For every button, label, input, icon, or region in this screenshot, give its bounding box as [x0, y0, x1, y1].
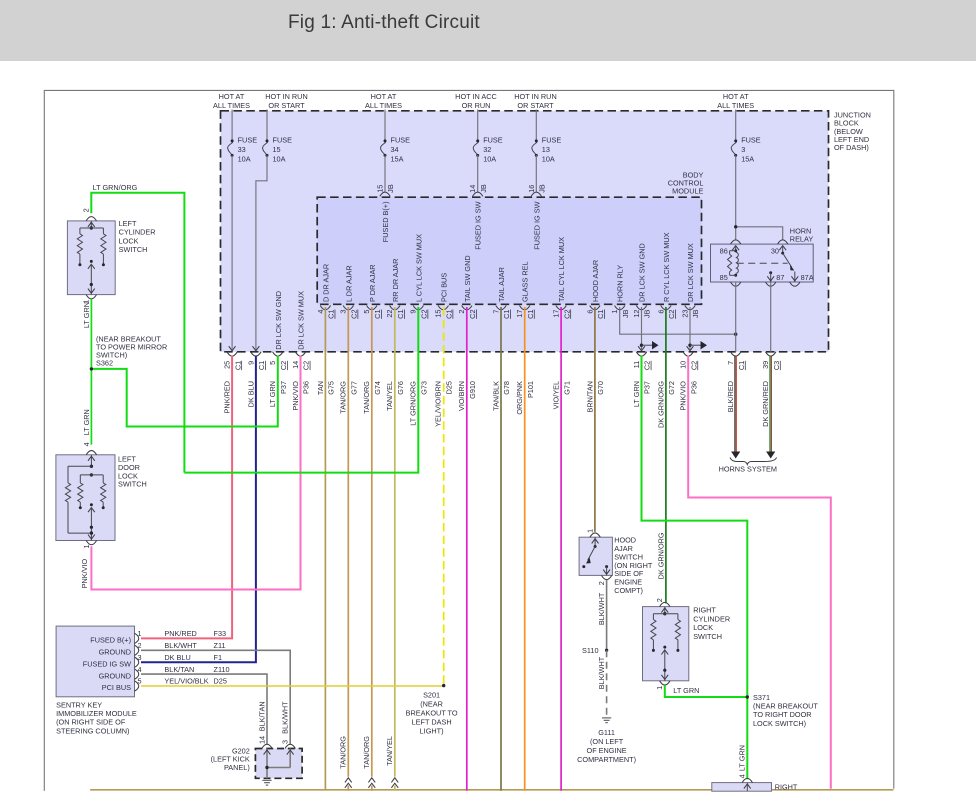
svg-text:2: 2	[597, 581, 606, 585]
left door lock switch pin 1	[86, 541, 96, 545]
svg-text:G111: G111	[598, 728, 615, 737]
off-page connector chevrons for G77 G74 G76	[345, 778, 352, 783]
diagram frame	[44, 90, 894, 791]
svg-text:RIGHT: RIGHT	[693, 606, 716, 615]
header bar	[0, 0, 976, 61]
wire LT GRN cylinder to S362 to door switch	[90, 299, 92, 445]
svg-text:5: 5	[138, 677, 142, 686]
horns system brace	[730, 458, 777, 465]
ground G111	[602, 717, 611, 719]
svg-text:1: 1	[655, 686, 664, 690]
JB bottom pin 7 C1	[731, 352, 741, 356]
svg-text:10A: 10A	[273, 154, 286, 163]
svg-text:DK GRN/ORG: DK GRN/ORG	[656, 532, 665, 579]
svg-text:FUSED IG SW: FUSED IG SW	[474, 201, 483, 249]
svg-text:6: 6	[585, 310, 594, 314]
ground splice block G202 box	[255, 749, 302, 779]
svg-text:C2: C2	[420, 310, 429, 319]
svg-text:3: 3	[741, 145, 745, 154]
wire fuse F32 to BCM pin 14 JB	[477, 155, 479, 193]
svg-text:P37: P37	[279, 381, 288, 394]
wire TAN/YEL G76	[394, 307, 396, 777]
svg-text:1: 1	[138, 629, 142, 638]
svg-text:FUSED B(+): FUSED B(+)	[381, 202, 390, 243]
horn relay box	[711, 244, 814, 282]
svg-text:G76: G76	[396, 381, 405, 395]
svg-text:G71: G71	[562, 381, 571, 395]
svg-text:C1: C1	[373, 310, 382, 319]
svg-text:LIGHT): LIGHT)	[420, 727, 444, 736]
wire fuse F34 to BCM pin 15 JB	[384, 155, 386, 192]
wire BLK/WHT Z11 to G202 pin 3	[141, 650, 290, 744]
svg-text:TAN/ORG: TAN/ORG	[362, 736, 371, 769]
svg-text:SWITCH: SWITCH	[118, 480, 147, 489]
svg-text:LT GRN/ORG: LT GRN/ORG	[93, 183, 138, 192]
JB bottom pin 14 C2	[295, 352, 305, 356]
svg-text:86: 86	[720, 247, 728, 256]
svg-text:6: 6	[656, 310, 665, 314]
node S362	[90, 367, 93, 370]
wire ORG/PNK P101	[524, 307, 526, 791]
svg-text:HOOD AJAR: HOOD AJAR	[591, 260, 600, 302]
G202 pin 14	[262, 744, 272, 748]
svg-text:15: 15	[376, 185, 385, 193]
svg-text:BLK/TAN: BLK/TAN	[164, 665, 194, 674]
svg-text:PNK/VIO: PNK/VIO	[679, 381, 688, 411]
svg-text:10A: 10A	[542, 154, 555, 163]
wire LT GRN/ORG riser to cylinder switch	[91, 193, 184, 473]
svg-text:15A: 15A	[391, 154, 404, 163]
svg-text:P36: P36	[689, 381, 698, 394]
fuse F3	[735, 110, 737, 141]
wire fuse F15 output jog to JB bottom	[256, 155, 267, 349]
svg-text:C1: C1	[737, 361, 746, 370]
svg-text:C2: C2	[643, 361, 652, 370]
svg-text:87A: 87A	[801, 273, 814, 282]
svg-text:DK BLU: DK BLU	[246, 381, 255, 407]
svg-text:C1: C1	[233, 361, 242, 370]
svg-text:PNK/RED: PNK/RED	[164, 629, 196, 638]
svg-text:G72: G72	[667, 381, 676, 395]
svg-text:PNK/RED: PNK/RED	[223, 381, 232, 413]
svg-text:FUSE: FUSE	[238, 136, 258, 145]
svg-text:C2: C2	[689, 361, 698, 370]
svg-text:S110: S110	[582, 646, 599, 655]
svg-text:LEFT DASH: LEFT DASH	[412, 718, 452, 727]
svg-text:5: 5	[362, 310, 371, 314]
svg-text:RR DR AJAR: RR DR AJAR	[391, 259, 400, 302]
wire fuse F33 output to JB bottom	[231, 155, 233, 349]
JB bottom pin 39 C3	[766, 352, 776, 356]
svg-text:L CYL LCK SW MUX: L CYL LCK SW MUX	[414, 234, 423, 302]
svg-text:LT GRN: LT GRN	[268, 381, 277, 407]
svg-text:D25: D25	[445, 381, 454, 394]
svg-text:C2: C2	[468, 310, 477, 319]
svg-text:ALL TIMES: ALL TIMES	[717, 101, 754, 110]
svg-text:JB: JB	[643, 309, 652, 318]
wire TAN G75	[324, 307, 326, 790]
svg-text:2: 2	[457, 310, 466, 314]
fuse F15	[266, 110, 268, 141]
svg-text:S201: S201	[423, 691, 440, 700]
node S371	[746, 695, 749, 698]
svg-text:JB: JB	[691, 309, 700, 318]
wire BLK/RED to horns	[734, 356, 736, 452]
svg-text:FUSED B(+): FUSED B(+)	[90, 636, 131, 645]
JB bottom pin 10 C2	[683, 352, 693, 356]
svg-text:34: 34	[391, 145, 399, 154]
svg-text:F1: F1	[214, 653, 223, 662]
svg-text:G70: G70	[596, 381, 605, 395]
svg-text:G74: G74	[373, 381, 382, 395]
svg-text:15: 15	[434, 310, 443, 318]
svg-text:BLK/WHT: BLK/WHT	[597, 656, 606, 689]
svg-text:C1: C1	[327, 310, 336, 319]
svg-text:C2: C2	[279, 361, 288, 370]
svg-text:PNK/VIO: PNK/VIO	[291, 381, 300, 411]
wire YEL/VIO/BRN D25 dashed PCI BUS	[443, 307, 445, 686]
wire DR LCK SW GND pin 12 down	[641, 307, 643, 350]
wire DR LCK SW MUX pin 23 down	[689, 307, 691, 350]
wire relay pin 87 down to JB bottom	[770, 282, 772, 352]
right door lock switch box (clipped)	[712, 783, 772, 792]
svg-text:3: 3	[339, 310, 348, 314]
svg-text:C2: C2	[350, 310, 359, 319]
svg-text:C2: C2	[667, 310, 676, 319]
svg-text:C1: C1	[596, 310, 605, 319]
svg-text:(ON LEFT: (ON LEFT	[590, 737, 624, 746]
svg-text:LOCK SWITCH): LOCK SWITCH)	[753, 719, 806, 728]
svg-text:G910: G910	[468, 381, 477, 399]
title	[288, 12, 480, 34]
hood ajar switch pin 1	[590, 533, 600, 537]
svg-text:25: 25	[223, 361, 232, 369]
svg-text:ALL TIMES: ALL TIMES	[213, 101, 250, 110]
svg-text:1: 1	[82, 544, 91, 548]
wire TAN/BLK G78	[500, 307, 502, 791]
svg-text:S362: S362	[96, 359, 113, 368]
svg-text:R CYL LCK SW MUX: R CYL LCK SW MUX	[662, 232, 671, 302]
svg-text:4: 4	[738, 774, 747, 778]
svg-text:C1: C1	[396, 310, 405, 319]
wire PNK/VIO P36 right segment	[688, 356, 831, 789]
left door lock switch pin 4	[86, 451, 96, 455]
svg-text:BLK/WHT: BLK/WHT	[164, 641, 197, 650]
svg-text:BLK/TAN: BLK/TAN	[257, 701, 266, 731]
svg-text:C3: C3	[772, 361, 781, 370]
wire YEL/VIO/BLK D25 to S201	[141, 685, 444, 687]
svg-text:9: 9	[409, 310, 418, 314]
svg-text:17: 17	[552, 310, 561, 318]
fuse F34	[384, 110, 386, 141]
svg-text:Z110: Z110	[214, 665, 230, 674]
wire LT GRN right cylinder switch to S371	[665, 685, 748, 697]
svg-text:22: 22	[385, 310, 394, 318]
svg-text:P37: P37	[643, 381, 652, 394]
horn relay actuation dashed line	[737, 262, 788, 264]
sentry key immobilizer module box	[56, 626, 134, 697]
svg-text:BLK/WHT: BLK/WHT	[281, 701, 290, 734]
svg-text:COMPT): COMPT)	[614, 586, 643, 595]
svg-text:3: 3	[281, 740, 290, 744]
wire LT GRN/ORG G73 net	[184, 307, 418, 473]
svg-text:BLK/RED: BLK/RED	[726, 381, 735, 412]
svg-text:YEL/VIO/BLK: YEL/VIO/BLK	[164, 677, 208, 686]
svg-text:14: 14	[291, 361, 300, 369]
hood ajar switch pin 2	[601, 575, 611, 579]
svg-text:PANEL): PANEL)	[224, 763, 250, 772]
G202 pin 3	[285, 744, 295, 748]
svg-text:OF DASH): OF DASH)	[834, 143, 869, 152]
svg-text:G78: G78	[502, 381, 511, 395]
svg-text:OR START: OR START	[517, 101, 554, 110]
svg-text:C1: C1	[445, 310, 454, 319]
svg-text:Z11: Z11	[214, 641, 226, 650]
svg-text:PNK/VIO: PNK/VIO	[80, 558, 89, 588]
svg-text:JB: JB	[538, 184, 547, 193]
svg-text:L DR AJAR: L DR AJAR	[344, 265, 353, 302]
svg-text:D DR AJAR: D DR AJAR	[321, 264, 330, 302]
svg-text:(NEAR: (NEAR	[420, 700, 443, 709]
JB bottom pin 5 C2	[273, 352, 283, 356]
svg-text:C2: C2	[302, 361, 311, 370]
svg-text:FUSED IG SW: FUSED IG SW	[83, 659, 131, 668]
svg-text:SWITCH: SWITCH	[693, 632, 722, 641]
wire LT GRN P37 right segment	[642, 356, 748, 780]
svg-text:PCI BUS: PCI BUS	[439, 273, 448, 302]
svg-text:FUSE: FUSE	[483, 136, 503, 145]
wire VIO/YEL G71	[560, 307, 562, 791]
svg-text:C1: C1	[257, 361, 266, 370]
svg-text:3: 3	[138, 653, 142, 662]
svg-text:ORG/PNK: ORG/PNK	[515, 381, 524, 415]
wire DK GRN/ORG G72 to right cylinder lock switch	[665, 307, 667, 603]
svg-text:32: 32	[483, 145, 491, 154]
svg-text:5: 5	[268, 361, 277, 365]
horn relay pin 30 entry	[778, 240, 788, 244]
svg-text:10: 10	[679, 361, 688, 369]
svg-text:MODULE: MODULE	[672, 187, 703, 196]
svg-text:87: 87	[776, 273, 784, 282]
svg-text:85: 85	[720, 273, 728, 282]
svg-text:HORN RLY: HORN RLY	[616, 265, 625, 302]
svg-text:LT GRN: LT GRN	[82, 302, 91, 328]
svg-text:TAN/ORG: TAN/ORG	[339, 736, 348, 769]
svg-text:TAN: TAN	[316, 381, 325, 395]
junction block JB (below left end of dash)	[221, 111, 829, 352]
svg-text:DK BLU: DK BLU	[164, 653, 190, 662]
svg-text:23: 23	[680, 310, 689, 318]
svg-text:OR RUN: OR RUN	[462, 101, 491, 110]
svg-text:OR START: OR START	[268, 101, 305, 110]
svg-text:GROUND: GROUND	[99, 671, 131, 680]
wire fuse F3 to horn relay pins 86 and 30	[735, 155, 737, 240]
svg-text:VIO/BRN: VIO/BRN	[457, 381, 466, 411]
svg-text:SWITCH: SWITCH	[119, 245, 148, 254]
wire DK BLU F1 net	[141, 356, 256, 663]
svg-text:DR LCK SW MUX: DR LCK SW MUX	[686, 243, 695, 302]
svg-text:VIO/YEL: VIO/YEL	[552, 381, 561, 409]
svg-text:39: 39	[761, 361, 770, 369]
svg-text:RIGHT: RIGHT	[775, 782, 798, 791]
svg-text:2: 2	[138, 641, 142, 650]
svg-text:10A: 10A	[483, 154, 496, 163]
svg-text:LEFT: LEFT	[119, 219, 137, 228]
left cylinder lock switch internals	[90, 221, 92, 228]
svg-text:LT GRN: LT GRN	[738, 745, 747, 771]
svg-text:LT GRN/ORG: LT GRN/ORG	[409, 381, 418, 426]
wire BRN/TAN G70 to hood ajar switch	[594, 307, 596, 532]
left cylinder lock switch pin 1	[86, 295, 96, 299]
svg-text:P DR AJAR: P DR AJAR	[368, 264, 377, 302]
G202 internals	[266, 749, 268, 779]
svg-text:TAN/YEL: TAN/YEL	[385, 736, 394, 766]
wire PNK/RED F33 net	[141, 356, 232, 639]
svg-text:LOCK: LOCK	[119, 236, 139, 245]
right cylinder lock switch internals	[664, 607, 666, 614]
svg-text:LOCK: LOCK	[693, 623, 713, 632]
svg-text:2: 2	[655, 598, 664, 602]
svg-text:TAIL CYL LCK MUX: TAIL CYL LCK MUX	[557, 237, 566, 302]
svg-text:33: 33	[238, 145, 246, 154]
svg-text:TAN/ORG: TAN/ORG	[362, 381, 371, 414]
hood ajar switch box	[579, 537, 612, 575]
svg-text:GROUND: GROUND	[99, 648, 131, 657]
svg-text:DR LCK SW MUX: DR LCK SW MUX	[297, 291, 306, 350]
svg-text:G75: G75	[327, 381, 336, 395]
svg-text:7: 7	[491, 310, 500, 314]
left door lock switch internals	[90, 455, 92, 467]
svg-text:CYLINDER: CYLINDER	[119, 228, 156, 237]
right door lock switch pin 4	[742, 778, 752, 782]
svg-text:F33: F33	[214, 629, 227, 638]
svg-text:OF ENGINE: OF ENGINE	[587, 746, 627, 755]
svg-text:1: 1	[610, 310, 619, 314]
wire DK GRN/RED to horns	[769, 356, 771, 452]
svg-text:HORNS SYSTEM: HORNS SYSTEM	[719, 465, 777, 474]
wire LT GRN P37 left segment	[91, 356, 277, 427]
svg-text:JB: JB	[479, 184, 488, 193]
horn relay pin 86 entry	[731, 240, 741, 244]
right cylinder lock switch pin 1	[660, 681, 670, 685]
svg-text:FUSE: FUSE	[542, 136, 562, 145]
svg-text:TAN/YEL: TAN/YEL	[385, 381, 394, 411]
svg-text:JB: JB	[621, 309, 630, 318]
svg-text:C2: C2	[562, 310, 571, 319]
wire HORN RLY BCM pin 1 to relay pin 85 net	[620, 307, 736, 334]
wire TAN/ORG G77	[347, 307, 349, 777]
svg-text:15: 15	[273, 145, 281, 154]
svg-text:LT GRN: LT GRN	[632, 381, 641, 407]
svg-text:COMPARTMENT): COMPARTMENT)	[577, 755, 636, 764]
svg-text:G77: G77	[350, 381, 359, 395]
svg-text:30: 30	[771, 247, 779, 256]
svg-text:LT GRN: LT GRN	[673, 686, 699, 695]
right cylinder lock switch pin 2	[660, 602, 670, 606]
JB bottom pin 11 C2	[636, 352, 646, 356]
svg-text:D25: D25	[214, 677, 227, 686]
svg-text:10A: 10A	[238, 154, 251, 163]
left cylinder lock switch box	[67, 221, 115, 295]
svg-text:11: 11	[632, 361, 641, 369]
wire TAN/ORG G74	[371, 307, 373, 777]
svg-text:JB: JB	[386, 184, 395, 193]
horn relay switch blade 30-87A	[781, 252, 784, 255]
svg-text:14: 14	[257, 736, 266, 744]
svg-text:12: 12	[632, 310, 641, 318]
svg-text:1: 1	[586, 529, 595, 533]
svg-text:GLASS REL: GLASS REL	[521, 261, 530, 302]
svg-text:TAIL AJAR: TAIL AJAR	[497, 267, 506, 302]
svg-text:DR LCK SW GND: DR LCK SW GND	[274, 291, 283, 350]
svg-text:BREAKOUT TO: BREAKOUT TO	[406, 709, 458, 718]
ground G202	[262, 779, 271, 781]
svg-text:FUSE: FUSE	[741, 136, 761, 145]
right cylinder lock switch box	[643, 607, 689, 681]
svg-text:7: 7	[726, 361, 735, 365]
svg-text:DK GRN/ORG: DK GRN/ORG	[656, 381, 665, 428]
wire BLK/TAN Z110 to G202 pin 14	[141, 674, 267, 745]
svg-text:C1: C1	[526, 310, 535, 319]
svg-text:TAIL SW GND: TAIL SW GND	[463, 255, 472, 302]
svg-text:4: 4	[82, 442, 91, 446]
JB bottom pin 25 C1	[227, 352, 237, 356]
svg-text:P36: P36	[302, 381, 311, 394]
svg-text:4: 4	[138, 665, 142, 674]
svg-text:4: 4	[316, 310, 325, 314]
fuse F33	[231, 110, 233, 141]
fuse F13	[535, 110, 537, 141]
svg-text:BLK/WHT: BLK/WHT	[597, 592, 606, 625]
wire TAN G75 bottom horizontal run	[90, 789, 893, 791]
svg-text:9: 9	[246, 361, 255, 365]
svg-text:STEERING COLUMN): STEERING COLUMN)	[56, 726, 129, 735]
svg-text:FUSE: FUSE	[273, 136, 293, 145]
svg-text:DR LCK SW GND: DR LCK SW GND	[638, 243, 647, 302]
wire relay pin 85 down to JB bottom	[735, 282, 737, 352]
hood ajar switch internals	[594, 537, 596, 546]
svg-text:G73: G73	[420, 381, 429, 395]
svg-text:YEL/VIO/BRN: YEL/VIO/BRN	[434, 381, 443, 427]
horn relay pin 87 stub	[769, 271, 772, 274]
svg-text:P101: P101	[526, 381, 535, 398]
svg-text:PCI BUS: PCI BUS	[102, 683, 131, 692]
svg-text:DK GRN/RED: DK GRN/RED	[761, 381, 770, 427]
svg-text:13: 13	[542, 145, 550, 154]
svg-text:14: 14	[468, 185, 477, 193]
wire BLK/WHT S110 to G111 dashed	[606, 650, 608, 715]
svg-text:LT GRN: LT GRN	[82, 409, 91, 435]
wire VIO/BRN G910	[466, 307, 468, 791]
svg-text:CYLINDER: CYLINDER	[693, 614, 730, 623]
fuse F32	[477, 110, 479, 141]
wire BLK/WHT hood switch to S110	[606, 580, 608, 651]
left door lock switch box	[56, 455, 115, 541]
svg-text:FUSE: FUSE	[391, 136, 411, 145]
svg-text:FUSED IG SW: FUSED IG SW	[532, 201, 541, 249]
node S110	[605, 649, 608, 652]
horn relay coil 86-85	[734, 249, 737, 252]
wire fuse F13 to BCM pin 16 JB	[535, 155, 537, 193]
body control module BCM	[317, 197, 701, 304]
svg-text:TAN/ORG: TAN/ORG	[339, 381, 348, 414]
svg-text:BRN/TAN: BRN/TAN	[585, 381, 594, 413]
svg-text:ALL TIMES: ALL TIMES	[365, 101, 402, 110]
svg-text:TAN/BLK: TAN/BLK	[491, 381, 500, 411]
svg-text:2: 2	[82, 208, 91, 212]
left cylinder lock switch pin 2	[86, 217, 96, 221]
svg-text:16: 16	[527, 185, 536, 193]
